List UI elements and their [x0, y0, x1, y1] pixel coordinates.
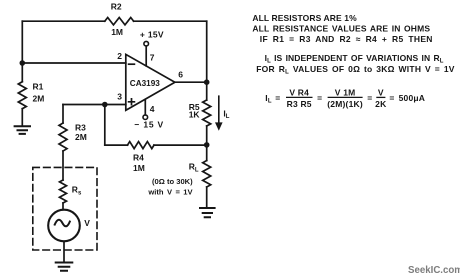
- svg-text:2: 2: [117, 51, 122, 61]
- svg-text:+ 15V: + 15V: [140, 30, 164, 40]
- svg-text:=: =: [367, 93, 372, 103]
- svg-text:V 1M: V 1M: [335, 87, 356, 97]
- svg-text:1M: 1M: [133, 163, 145, 173]
- svg-text:2K: 2K: [375, 99, 387, 109]
- svg-text:IL: IL: [265, 93, 272, 105]
- svg-text:1M: 1M: [111, 27, 123, 37]
- svg-text:Rs: Rs: [72, 185, 82, 197]
- svg-text:IL: IL: [223, 109, 229, 121]
- svg-text:− 15 V: − 15 V: [134, 119, 164, 129]
- svg-text:4: 4: [150, 104, 155, 114]
- svg-text:= 500μA: = 500μA: [389, 93, 425, 103]
- svg-text:(2M)(1K): (2M)(1K): [327, 99, 363, 109]
- svg-text:1K: 1K: [189, 109, 201, 119]
- svg-text:R1: R1: [33, 82, 44, 92]
- svg-text:2M: 2M: [75, 132, 87, 142]
- svg-text:CA3193: CA3193: [130, 79, 160, 88]
- svg-text:with V = 1V: with V = 1V: [147, 187, 193, 196]
- svg-text:R2: R2: [111, 2, 122, 12]
- svg-text:=: =: [317, 93, 322, 103]
- svg-text:6: 6: [178, 70, 183, 80]
- svg-text:V: V: [378, 87, 384, 97]
- svg-text:IL IS INDEPENDENT OF VARIATION: IL IS INDEPENDENT OF VARIATIONS IN RL: [265, 53, 444, 65]
- svg-text:2M: 2M: [33, 93, 45, 103]
- svg-text:V: V: [84, 218, 90, 228]
- svg-text:V R4: V R4: [289, 87, 309, 97]
- svg-text:FOR RL VALUES OF 0Ω to 3KΩ WIT: FOR RL VALUES OF 0Ω to 3KΩ WITH V = 1V: [256, 64, 455, 76]
- svg-text:7: 7: [150, 53, 155, 63]
- svg-text:SeekIC.com: SeekIC.com: [408, 265, 460, 276]
- svg-text:R3 R5: R3 R5: [287, 99, 312, 109]
- svg-text:(0Ω to 30K): (0Ω to 30K): [152, 177, 193, 186]
- svg-text:ALL RESISTANCE VALUES ARE IN O: ALL RESISTANCE VALUES ARE IN OHMS: [252, 24, 430, 34]
- svg-text:=: =: [275, 93, 280, 103]
- svg-text:3: 3: [117, 92, 122, 102]
- svg-text:RL: RL: [189, 162, 199, 174]
- svg-text:ALL RESISTORS ARE 1%: ALL RESISTORS ARE 1%: [252, 13, 357, 23]
- svg-text:IF R1 = R3 AND R2 ≈ R4 + R5 TH: IF R1 = R3 AND R2 ≈ R4 + R5 THEN: [260, 34, 433, 44]
- svg-text:R3: R3: [75, 123, 86, 133]
- svg-text:R4: R4: [133, 152, 144, 162]
